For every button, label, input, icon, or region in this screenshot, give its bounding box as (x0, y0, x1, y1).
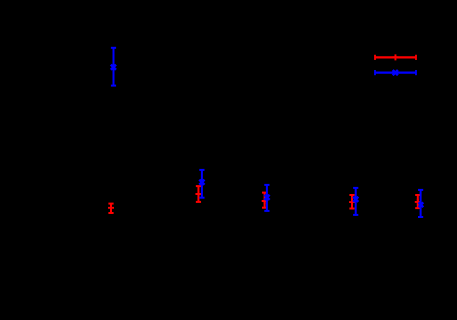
red errorbar point 5 (415, 195, 421, 208)
red errorbar point 4 (349, 195, 355, 209)
red errorbar point 3 (262, 193, 268, 208)
blue errorbar point 4 (353, 188, 358, 215)
blue errorbar point 3 (264, 185, 269, 211)
blue errorbar point 1 (tall, upper left) (111, 48, 116, 86)
red errorbar point 2 (195, 186, 201, 202)
red errorbar point 1 (108, 204, 114, 213)
legend blue errorbar sample (375, 70, 416, 75)
blue errorbar point 5 (418, 190, 423, 217)
legend red errorbar sample (375, 54, 416, 60)
blue errorbar point 2 (199, 170, 204, 198)
